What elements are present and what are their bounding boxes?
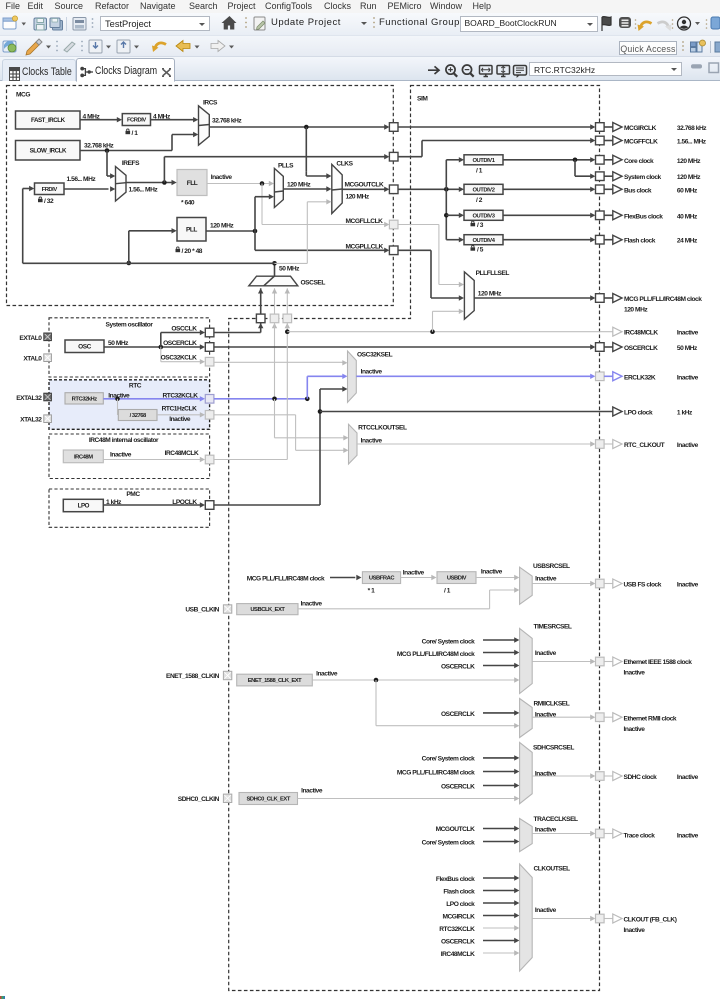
svg-text:System clock: System clock <box>624 174 662 181</box>
svg-text:Inactive: Inactive <box>677 374 699 381</box>
svg-text:Inactive: Inactive <box>361 368 383 375</box>
svg-text:MCGFLLCLK: MCGFLLCLK <box>346 218 384 225</box>
svg-text:Inactive: Inactive <box>624 726 646 733</box>
svg-text:Core/ System clock: Core/ System clock <box>422 756 476 763</box>
svg-text:OSCERCLK: OSCERCLK <box>624 345 658 352</box>
svg-text:32.768 kHz: 32.768 kHz <box>84 143 114 150</box>
svg-text:SIM: SIM <box>417 96 428 103</box>
svg-text:Inactive: Inactive <box>677 442 699 449</box>
svg-text:Core/ System clock: Core/ System clock <box>422 839 476 846</box>
svg-text:IRC48MCLK: IRC48MCLK <box>165 450 199 457</box>
svg-text:ENET_1588_CLK_EXT: ENET_1588_CLK_EXT <box>248 678 302 684</box>
svg-text:* 1: * 1 <box>368 587 375 594</box>
svg-text:IRCS: IRCS <box>203 99 218 106</box>
svg-text:TIMESRCSEL: TIMESRCSEL <box>534 623 572 630</box>
svg-text:SLOW_IRCLK: SLOW_IRCLK <box>30 148 67 155</box>
svg-text:SDHC clock: SDHC clock <box>624 774 658 781</box>
svg-text:/ 32: / 32 <box>44 198 54 205</box>
svg-text:OUTDIV3: OUTDIV3 <box>473 213 496 219</box>
svg-text:Inactive: Inactive <box>301 787 323 794</box>
svg-text:PLLFLLSEL: PLLFLLSEL <box>476 270 510 277</box>
svg-text:PLLS: PLLS <box>278 162 294 169</box>
svg-text:EXTAL32: EXTAL32 <box>16 395 42 402</box>
svg-text:FlexBus clock: FlexBus clock <box>624 213 663 220</box>
svg-text:/ 2: / 2 <box>476 197 483 204</box>
svg-text:OSCERCLK: OSCERCLK <box>441 711 475 718</box>
svg-text:FCRDIV: FCRDIV <box>127 118 146 124</box>
svg-text:Inactive: Inactive <box>677 774 699 781</box>
svg-text:/ 20 * 48: / 20 * 48 <box>182 248 203 255</box>
svg-text:Inactive: Inactive <box>316 671 338 678</box>
svg-text:Inactive: Inactive <box>624 927 646 934</box>
svg-text:Inactive: Inactive <box>677 832 699 839</box>
svg-text:50 MHz: 50 MHz <box>108 340 129 347</box>
svg-text:Bus clock: Bus clock <box>624 187 652 194</box>
svg-text:Inactive: Inactive <box>403 569 425 576</box>
svg-text:Inactive: Inactive <box>481 568 503 575</box>
svg-text:USBSRCSEL: USBSRCSEL <box>533 563 570 570</box>
svg-text:Inactive: Inactive <box>535 576 557 583</box>
svg-text:SDHC0_CLKIN: SDHC0_CLKIN <box>178 796 220 803</box>
svg-text:LPO clock: LPO clock <box>624 410 653 417</box>
svg-text:120 MHz: 120 MHz <box>624 306 648 313</box>
svg-text:MCGPLLCLK: MCGPLLCLK <box>346 244 384 251</box>
svg-text:/ 1: / 1 <box>132 130 139 137</box>
svg-text:MCGIRCLK: MCGIRCLK <box>624 125 657 132</box>
svg-text:MCG PLL/FLL/IRC48M clock: MCG PLL/FLL/IRC48M clock <box>624 296 702 303</box>
svg-text:Flash clock: Flash clock <box>624 238 656 245</box>
svg-text:USB FS clock: USB FS clock <box>624 581 662 588</box>
svg-text:CLKOUTSEL: CLKOUTSEL <box>534 866 571 873</box>
svg-text:Trace clock: Trace clock <box>624 832 656 839</box>
svg-text:RTC_CLKOUT: RTC_CLKOUT <box>624 442 665 449</box>
svg-text:OSCSEL: OSCSEL <box>301 279 326 286</box>
svg-text:40 MHz: 40 MHz <box>677 213 698 220</box>
svg-text:Inactive: Inactive <box>624 670 646 677</box>
svg-text:Inactive: Inactive <box>677 581 699 588</box>
svg-text:RTC32KCLK: RTC32KCLK <box>439 926 475 933</box>
svg-text:FlexBus clock: FlexBus clock <box>436 876 475 883</box>
svg-text:IRC48M: IRC48M <box>74 454 93 460</box>
svg-text:PMC: PMC <box>126 491 140 498</box>
svg-text:LPO: LPO <box>78 503 90 510</box>
svg-text:System oscillator: System oscillator <box>106 322 154 329</box>
svg-text:OSCERCLK: OSCERCLK <box>441 664 475 671</box>
svg-text:OSCERCLK: OSCERCLK <box>163 340 197 347</box>
svg-text:Inactive: Inactive <box>211 174 233 181</box>
svg-text:XTAL0: XTAL0 <box>23 356 42 363</box>
svg-text:120 MHz: 120 MHz <box>677 174 701 181</box>
svg-text:LPO clock: LPO clock <box>446 901 475 908</box>
svg-text:Core/ System clock: Core/ System clock <box>422 639 476 646</box>
svg-text:120 MHz: 120 MHz <box>478 291 502 298</box>
svg-text:OSC32KCLK: OSC32KCLK <box>161 354 198 361</box>
svg-text:32.768 kHz: 32.768 kHz <box>677 125 707 132</box>
svg-text:MCG: MCG <box>16 92 30 99</box>
svg-text:IRC48M internal oscillator: IRC48M internal oscillator <box>89 437 159 444</box>
svg-text:50 MHz: 50 MHz <box>279 266 300 273</box>
svg-text:Inactive: Inactive <box>677 330 699 337</box>
svg-text:FAST_IRCLK: FAST_IRCLK <box>31 117 66 124</box>
svg-text:/ 1: / 1 <box>444 587 451 594</box>
svg-text:Flash clock: Flash clock <box>443 889 475 896</box>
svg-text:OSCCLK: OSCCLK <box>171 325 197 332</box>
svg-text:Ethernet IEEE 1588 clock: Ethernet IEEE 1588 clock <box>624 659 693 666</box>
svg-text:/ 1: / 1 <box>476 168 483 175</box>
svg-text:CLKOUT (FB_CLK): CLKOUT (FB_CLK) <box>624 917 677 924</box>
svg-text:120 MHz: 120 MHz <box>677 158 701 165</box>
svg-text:OSCERCLK: OSCERCLK <box>441 784 475 791</box>
svg-text:MCG PLL/FLL/IRC48M clock: MCG PLL/FLL/IRC48M clock <box>397 651 475 658</box>
svg-text:USBCLK_EXT: USBCLK_EXT <box>250 607 285 613</box>
svg-text:Inactive: Inactive <box>535 907 557 914</box>
svg-text:Inactive: Inactive <box>301 601 323 608</box>
svg-text:USBDIV: USBDIV <box>447 576 467 582</box>
svg-text:IRC48MCLK: IRC48MCLK <box>624 330 658 337</box>
svg-text:Inactive: Inactive <box>110 451 132 458</box>
svg-text:CLKS: CLKS <box>336 160 353 167</box>
svg-text:/ 32768: / 32768 <box>130 413 147 419</box>
svg-text:ENET_1588_CLKIN: ENET_1588_CLKIN <box>166 673 220 680</box>
svg-text:120 MHz: 120 MHz <box>346 194 370 201</box>
svg-text:* 640: * 640 <box>181 200 195 207</box>
svg-text:Inactive: Inactive <box>535 827 557 834</box>
svg-text:/ 5: / 5 <box>477 247 484 254</box>
svg-text:FLL: FLL <box>187 180 198 187</box>
svg-text:RTC32kHz: RTC32kHz <box>72 396 98 402</box>
svg-text:120 MHz: 120 MHz <box>287 182 311 189</box>
svg-text:120 MHz: 120 MHz <box>210 223 234 230</box>
svg-text:Ethernet RMII clock: Ethernet RMII clock <box>624 715 677 722</box>
svg-text:Inactive: Inactive <box>169 416 191 423</box>
svg-text:PLL: PLL <box>186 227 197 234</box>
svg-text:1.56... MHz: 1.56... MHz <box>677 139 707 146</box>
svg-text:USB_CLKIN: USB_CLKIN <box>185 607 219 614</box>
svg-text:32.768 kHz: 32.768 kHz <box>212 118 242 125</box>
svg-text:TRACECLKSEL: TRACECLKSEL <box>534 816 579 823</box>
svg-text:MCGOUTCLK: MCGOUTCLK <box>345 181 384 188</box>
svg-text:MCG PLL/FLL/IRC48M clock: MCG PLL/FLL/IRC48M clock <box>247 575 325 582</box>
svg-text:1 kHz: 1 kHz <box>677 410 693 417</box>
svg-text:ERCLK32K: ERCLK32K <box>624 374 656 381</box>
svg-text:OSC32KSEL: OSC32KSEL <box>357 351 393 358</box>
svg-text:MCGIRCLK: MCGIRCLK <box>442 914 475 921</box>
svg-text:USBFRAC: USBFRAC <box>369 576 395 582</box>
svg-text:FRDIV: FRDIV <box>42 187 58 193</box>
svg-text:RMIICLKSEL: RMIICLKSEL <box>534 701 570 708</box>
svg-text:OUTDIV4: OUTDIV4 <box>473 238 496 244</box>
svg-text:RTC1HzCLK: RTC1HzCLK <box>162 405 197 412</box>
svg-text:IRC48MCLK: IRC48MCLK <box>441 951 475 958</box>
svg-text:SDHC0_CLK_EXT: SDHC0_CLK_EXT <box>246 797 290 803</box>
svg-text:OUTDIV1: OUTDIV1 <box>473 158 496 164</box>
svg-text:Core clock: Core clock <box>624 158 654 165</box>
svg-text:OSC: OSC <box>78 344 91 351</box>
svg-text:SDHCSRCSEL: SDHCSRCSEL <box>533 744 574 751</box>
svg-text:/ 3: / 3 <box>477 222 484 229</box>
svg-text:RTC: RTC <box>129 383 142 390</box>
svg-text:60 MHz: 60 MHz <box>677 187 698 194</box>
svg-text:24 MHz: 24 MHz <box>677 238 698 245</box>
svg-text:1.56... MHz: 1.56... MHz <box>67 176 97 183</box>
svg-text:MCG PLL/FLL/IRC48M clock: MCG PLL/FLL/IRC48M clock <box>397 769 475 776</box>
svg-text:50 MHz: 50 MHz <box>677 345 698 352</box>
svg-text:RTCCLKOUTSEL: RTCCLKOUTSEL <box>358 424 407 431</box>
svg-text:Inactive: Inactive <box>361 437 383 444</box>
svg-text:EXTAL0: EXTAL0 <box>19 335 42 342</box>
svg-text:XTAL32: XTAL32 <box>20 417 42 424</box>
svg-text:Inactive: Inactive <box>535 650 557 657</box>
svg-text:1.56... MHz: 1.56... MHz <box>129 187 159 194</box>
svg-text:OSCERCLK: OSCERCLK <box>441 939 475 946</box>
svg-text:MCGOUTCLK: MCGOUTCLK <box>436 826 475 833</box>
svg-text:OUTDIV2: OUTDIV2 <box>473 187 495 193</box>
svg-text:IREFS: IREFS <box>122 160 140 167</box>
svg-text:MCGFFCLK: MCGFFCLK <box>624 139 658 146</box>
